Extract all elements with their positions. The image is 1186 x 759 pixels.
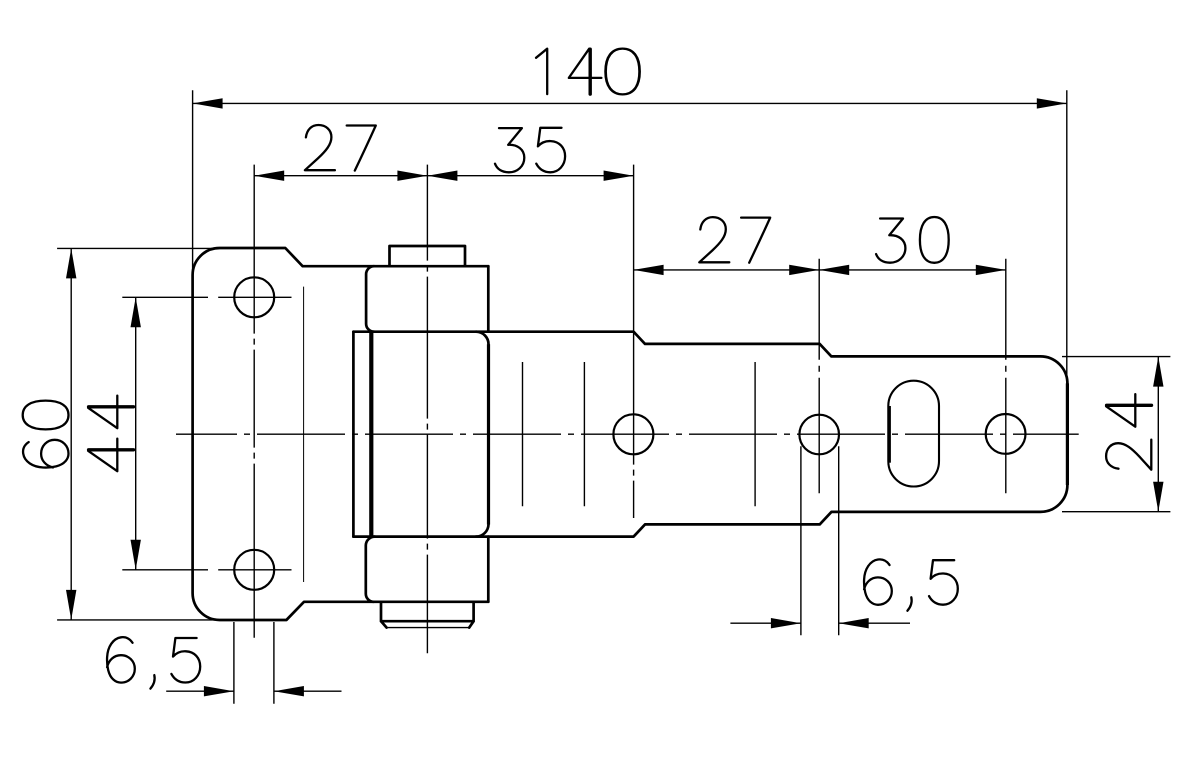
hole row horizontal centerlines xyxy=(218,297,291,570)
plate bend edge thin line xyxy=(303,287,305,582)
dim 35 text xyxy=(495,128,565,173)
strap tick line 2 xyxy=(583,362,585,506)
upper knuckle (left leaf) xyxy=(366,266,488,332)
vertical centerline strap hole 3 xyxy=(1005,259,1007,494)
hole plate-top xyxy=(234,277,274,317)
dim 60 extension lines xyxy=(57,248,220,620)
dim 27 right text xyxy=(699,217,770,263)
strap tick line 3 xyxy=(754,362,756,506)
centre knuckle right edge xyxy=(487,344,490,524)
dim 44 line xyxy=(135,297,137,570)
dim 6,5 right extension lines xyxy=(801,446,839,635)
vertical centerline strap hole 1 xyxy=(633,165,635,518)
dim 24 text xyxy=(1106,394,1151,470)
vertical centerline strap hole 2 xyxy=(818,259,820,494)
centre knuckle (strap leaf) left edge xyxy=(369,332,373,537)
dim 6,5 right text xyxy=(864,559,958,610)
dim 44 text xyxy=(88,396,133,472)
strap right edge thick segment xyxy=(1066,383,1069,485)
dim 6,5 left text xyxy=(107,637,200,688)
dim 140 text xyxy=(536,49,640,95)
slot (obround) xyxy=(888,381,939,487)
strap (right leaf) outline xyxy=(353,332,1067,537)
slot left thick segment xyxy=(888,406,891,463)
centre knuckle corner fillets xyxy=(476,332,489,537)
dim 24 extension lines xyxy=(1062,357,1170,512)
dim 140 extension lines xyxy=(193,90,1067,383)
vertical centerline hinge pin xyxy=(426,165,428,654)
dim 6,5 left extension lines xyxy=(234,622,274,704)
dim 6,5 left line xyxy=(166,690,341,692)
hole plate-bottom xyxy=(234,550,274,590)
dim 27 / 30 line xyxy=(634,269,1006,271)
vertical centerline plate holes xyxy=(253,165,255,638)
dim 30 text xyxy=(876,217,949,263)
dim 24 line xyxy=(1157,357,1159,512)
dim 27 text xyxy=(305,125,376,171)
dim 60 line xyxy=(70,248,72,620)
plate right-edge sliver between knuckles xyxy=(352,332,355,537)
main horizontal centerline xyxy=(176,433,1079,435)
hole strap-2 xyxy=(799,415,839,455)
hole strap-1 xyxy=(613,414,653,454)
left plate outline xyxy=(193,248,489,620)
dim 60 text xyxy=(23,401,69,468)
dim 6,5 right line xyxy=(730,622,910,624)
hinge pin top cap xyxy=(390,246,466,266)
lower knuckle (left leaf) xyxy=(366,537,489,602)
dim 140 line xyxy=(193,102,1067,104)
hinge pin bottom end xyxy=(381,602,474,628)
strap tick line 1 xyxy=(522,362,524,506)
dim 27 / 35 line xyxy=(254,175,633,177)
dim 44 extension lines xyxy=(122,297,208,570)
hole strap-3 xyxy=(986,414,1026,454)
